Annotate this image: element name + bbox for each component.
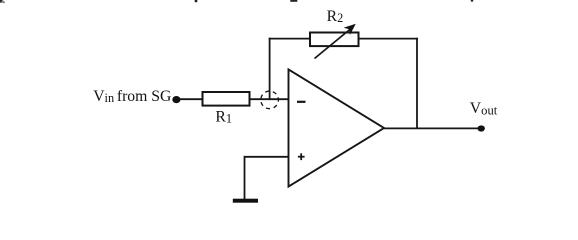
svg-text:Vout: Vout — [470, 100, 498, 117]
svg-text:R1: R1 — [215, 108, 232, 125]
svg-text:R2: R2 — [327, 8, 344, 25]
svg-text:Vin from SG: Vin from SG — [93, 88, 171, 105]
